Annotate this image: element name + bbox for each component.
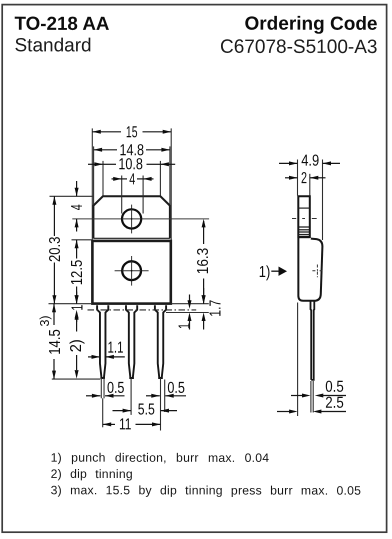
tab hole centerline horizontal: [72, 218, 209, 220]
svg-text:4.9: 4.9: [301, 153, 319, 170]
svg-text:C67078-S5100-A3: C67078-S5100-A3: [220, 37, 378, 58]
svg-text:2) dip tinning: 2) dip tinning: [51, 467, 133, 481]
svg-text:15: 15: [126, 124, 138, 141]
side view body hole center mark h: [312, 270, 322, 272]
svg-text:1.7: 1.7: [207, 300, 224, 317]
ext line 14.8 right: [169, 146, 171, 204]
svg-text:2.5: 2.5: [325, 395, 344, 412]
pin3 center ext: [160, 379, 162, 431]
svg-text:1.1: 1.1: [107, 340, 123, 357]
dimension 12.5: [69, 240, 86, 304]
side view body hole center mark v: [316, 265, 318, 278]
svg-text:3): 3): [38, 316, 52, 327]
side ext line 4.9 right: [322, 160, 324, 241]
dimension 0.5 (pin1 tip): [86, 380, 125, 398]
svg-text:3) max. 15.5 by dip tinning pr: 3) max. 15.5 by dip tinning press burr m…: [51, 483, 362, 497]
side pin ext lines: [310, 381, 312, 413]
dimension 2) dip tinning span: [68, 311, 85, 378]
ext line pin tips left: [52, 378, 100, 380]
ext line hole 4 right: [142, 176, 144, 214]
side ext line left (4.9/2): [297, 160, 299, 196]
body hole centerline horizontal: [115, 270, 149, 272]
side view body outline: [298, 238, 322, 301]
note 1 pointer: [259, 264, 287, 281]
body hole centerline vertical: [131, 256, 133, 286]
ext line tab top left: [50, 195, 94, 197]
side ext plane line bottom: [297, 303, 299, 417]
side view tab outline: [298, 196, 310, 238]
pin2 center ext: [130, 379, 132, 415]
dimension 20.3: [47, 196, 64, 303]
pin 3: [155, 305, 166, 378]
dimension 10.8: [88, 156, 175, 173]
dimension 15: [92, 124, 171, 141]
svg-text:4: 4: [69, 204, 86, 210]
pin1 center ext: [102, 398, 104, 427]
dimension 2 (tab thickness): [285, 170, 326, 187]
svg-text:1: 1: [177, 323, 194, 329]
pin3 tip burr line: [164, 380, 166, 413]
body hole: [122, 261, 141, 280]
ext line 15 left: [91, 128, 93, 240]
ext line body bottom left: [49, 303, 93, 305]
svg-text:0.5: 0.5: [167, 380, 185, 397]
svg-text:20.3: 20.3: [47, 236, 64, 262]
dimension 14.8: [94, 142, 170, 159]
dimension 0.5 (side pin): [291, 379, 346, 398]
side view tab thick band: [298, 236, 310, 238]
dimension 1.7 (right): [202, 288, 225, 330]
svg-text:0.5: 0.5: [325, 379, 344, 396]
front view: tab bottom line: [93, 237, 169, 239]
ext line 10.8 left: [102, 161, 104, 196]
shoulder bottom line: [166, 312, 209, 314]
svg-text:2): 2): [68, 339, 85, 352]
dimension 4 (left tab): [69, 181, 86, 232]
dimension 14.5 3): [38, 304, 64, 379]
dimension 1 (right): [177, 295, 194, 330]
dimension 1 (left, body to dash-dot): [69, 292, 86, 323]
svg-text:TO-218 AA: TO-218 AA: [14, 14, 109, 35]
front view: tab outline: [93, 196, 169, 238]
dimension 4.9: [279, 153, 340, 170]
dimension 5.5: [113, 401, 178, 418]
svg-text:2: 2: [301, 170, 307, 187]
dimension 2.5 (side): [277, 395, 346, 414]
svg-text:1): 1): [259, 264, 271, 281]
front view: body outline: [92, 241, 170, 304]
pin 2: [126, 305, 137, 378]
pin1 tip burr lines: [100, 379, 102, 399]
svg-text:Ordering Code: Ordering Code: [244, 14, 377, 35]
dimension 16.3: [195, 219, 212, 304]
svg-text:1: 1: [69, 305, 86, 311]
dimension 11: [103, 416, 161, 433]
ext line tab bottom left: [72, 239, 93, 241]
svg-text:1) punch direction, burr max.: 1) punch direction, burr max. 0.04: [51, 451, 270, 465]
dimension 0.5 (pin3 tip): [146, 380, 186, 398]
side view tab hole center ticks: [292, 218, 296, 220]
tab hole centerline vertical: [131, 205, 133, 234]
side ext line 2 right: [309, 174, 311, 196]
ext line 14.8 left: [93, 146, 95, 204]
svg-text:Standard: Standard: [14, 35, 91, 56]
side view pin: [311, 301, 315, 380]
ext line body bottom right: [172, 303, 209, 305]
svg-text:11: 11: [119, 416, 132, 433]
dimension 1.1 (pin width): [88, 340, 125, 359]
svg-text:4: 4: [129, 171, 135, 188]
svg-text:14.5: 14.5: [47, 329, 64, 355]
side view tab rivet line: [298, 207, 310, 209]
svg-text:0.5: 0.5: [107, 380, 125, 397]
side view tab step lines: [298, 226, 310, 228]
tab hole: [122, 209, 141, 228]
svg-text:16.3: 16.3: [195, 248, 212, 275]
dimension 4 (hole): [112, 171, 154, 188]
ext line hole 4 left: [121, 176, 123, 214]
svg-text:12.5: 12.5: [69, 260, 86, 286]
pin 1: [97, 305, 108, 378]
svg-text:5.5: 5.5: [138, 401, 155, 418]
ext line 15 right: [170, 128, 172, 240]
dip tinning dash-dot line: [88, 309, 197, 311]
ext line 10.8 right: [159, 161, 161, 196]
